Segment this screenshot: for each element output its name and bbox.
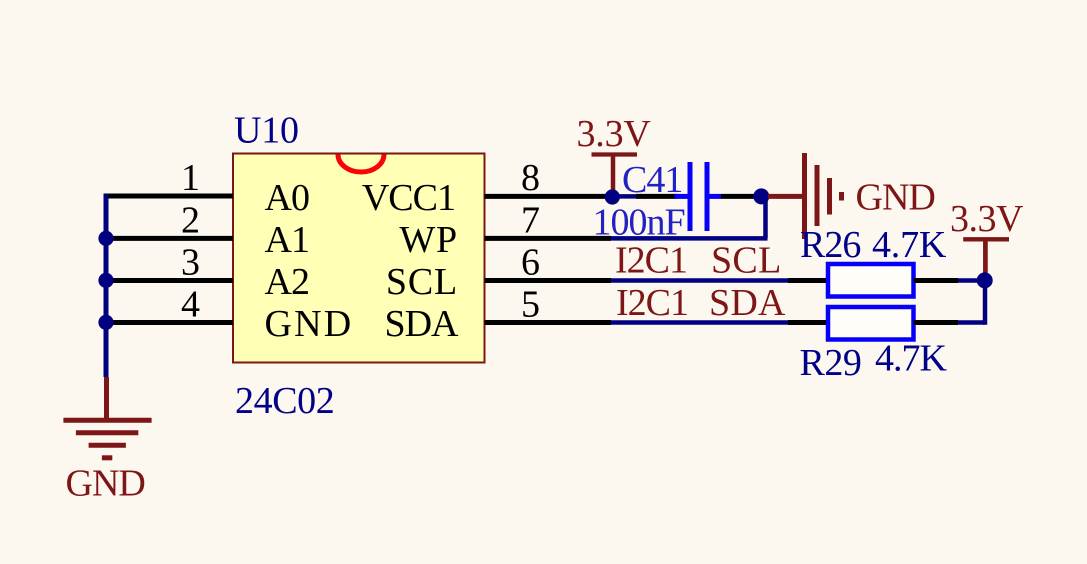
svg-text:SDA: SDA [384,303,459,345]
power symbol 3.3V right stem [983,239,988,276]
power symbol 3.3V right bar [963,237,1009,241]
ground symbol right bar 2 [815,165,820,226]
svg-text:U10: U10 [234,110,299,152]
ground stem bottom left [104,377,109,420]
svg-text:GND: GND [856,176,935,218]
wire pin1 [104,194,234,199]
capacitor C41 plate left [688,162,693,231]
power symbol 3.3V left bar [592,152,638,156]
wire pin4 [104,320,234,325]
wire R26 right navy [958,278,985,283]
svg-text:1: 1 [181,157,199,199]
svg-text:R29: R29 [800,342,862,384]
ground symbol right bar 3 [827,178,832,215]
capacitor C41 lead left [675,194,691,199]
wire pin5 black to R29 [788,320,828,325]
junction dot cap right [753,188,769,204]
wire R29 right navy corner [958,320,985,325]
svg-text:R26: R26 [800,224,860,266]
svg-text:A1: A1 [265,219,309,261]
svg-text:5: 5 [521,284,539,326]
junction dot pin2 [98,231,113,246]
net wire I2C1 SCL navy [611,278,788,283]
svg-text:3.3V: 3.3V [577,113,652,155]
svg-text:GND: GND [66,463,145,505]
svg-text:SDA: SDA [709,282,786,324]
svg-text:3.3V: 3.3V [950,198,1024,240]
svg-text:8: 8 [521,157,539,199]
wire pin8 black [485,194,615,199]
junction dot right [977,272,993,288]
wire cap to junction [721,194,756,199]
ground bar 3 [89,443,126,448]
svg-text:4: 4 [181,284,200,326]
svg-text:2: 2 [181,199,199,241]
ground bar 1 [63,418,151,423]
svg-text:SCL: SCL [386,261,458,303]
capacitor C41 lead right [707,194,721,199]
svg-text:7: 7 [521,199,539,241]
ground symbol right bar 4 [839,192,844,201]
wire left vertical bus [104,194,109,377]
svg-text:A0: A0 [265,177,309,219]
wire pin7 black [485,236,612,241]
svg-text:4.7K: 4.7K [875,338,948,380]
net wire I2C1 SDA navy [611,320,788,325]
wire pin6 black [485,278,612,283]
wire R29 right black [914,320,959,325]
resistor R26 body [828,264,914,297]
wire pin7 navy horizontal [611,236,768,241]
ground bar 2 [76,430,138,435]
junction dot pin3 [98,273,113,288]
notch arc [338,155,384,173]
svg-text:3: 3 [181,241,199,283]
wire navy vertical to junction [983,280,988,324]
svg-text:4.7K: 4.7K [872,224,947,266]
capacitor C41 plate right [705,162,710,231]
ground bar 4 [102,455,112,460]
power symbol 3.3V left stem [611,155,616,197]
svg-text:GND: GND [265,303,354,345]
svg-text:WP: WP [399,219,458,261]
wire pin7 navy vertical [763,196,768,238]
wire pin5 black [485,320,612,325]
svg-text:SCL: SCL [711,239,782,281]
wire to GND symbol [768,194,804,199]
svg-text:VCC1: VCC1 [362,177,455,219]
ground symbol right bar 1 [802,153,807,239]
svg-text:24C02: 24C02 [235,380,334,422]
junction dot pin8 [605,189,620,204]
wire pin3 [104,278,234,283]
junction dot pin4 [98,315,113,330]
wire R26 right black [914,278,959,283]
wire pin8 black to cap [636,194,677,199]
svg-text:I2C1: I2C1 [615,239,687,281]
wire pin8 navy stub [608,194,636,199]
resistor R29 body [828,307,914,340]
wire pin6 black to R26 [788,278,828,283]
wire pin2 [104,236,234,241]
svg-text:A2: A2 [265,261,309,303]
IC U10 body [233,154,485,363]
svg-text:C41: C41 [622,159,682,201]
svg-text:I2C1: I2C1 [616,282,688,324]
svg-text:6: 6 [521,241,539,283]
